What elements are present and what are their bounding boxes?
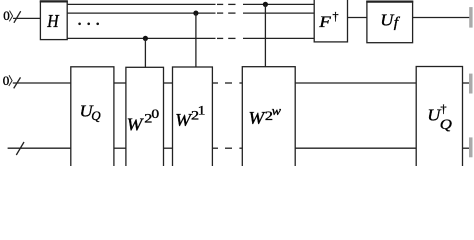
svg-text:0: 0	[3, 73, 10, 88]
gate Uf box	[367, 1, 413, 42]
gate H box	[40, 1, 67, 39]
svg-text:U: U	[380, 11, 395, 29]
gate UQdag box	[416, 67, 462, 172]
wire q1 from H to dashes	[67, 3, 215, 5]
wire W^2^1 to W^2^w dashed break (upper)	[212, 82, 218, 84]
wire q1 from dashes to Fdag	[243, 3, 314, 5]
cropped next-gate bar middle right	[469, 74, 473, 94]
wire qn dashed break	[217, 37, 223, 39]
wire q2 dashed break	[217, 12, 223, 14]
wire UQdag to right edge (lower)	[463, 147, 471, 149]
gate Uf label	[380, 11, 400, 31]
svg-text:W: W	[248, 109, 265, 129]
wire UQ to W^2^0 (lower)	[114, 147, 126, 149]
gate W^2^0 box	[126, 67, 164, 172]
wire q2 from H to dashes	[67, 12, 215, 14]
svg-text:†: †	[333, 9, 339, 23]
wire Fdag to Uf	[348, 17, 367, 19]
wire Uf to right edge	[413, 17, 471, 19]
ket |0> bottom register label	[3, 73, 10, 88]
svg-text:W: W	[175, 110, 192, 130]
wire q1 dashed break	[217, 3, 223, 5]
cropped next-gate bar top right	[469, 7, 472, 28]
ket rangle bottom register	[9, 75, 12, 86]
wire q2 from dashes to Fdag	[243, 12, 314, 14]
ket |0> top register label	[3, 8, 10, 23]
wire W^2^w to UQdag (upper)	[295, 82, 416, 84]
gate Fdag label	[318, 9, 338, 30]
svg-text:H: H	[46, 11, 59, 31]
svg-text:1: 1	[198, 104, 206, 118]
svg-text:†: †	[441, 102, 447, 116]
gate H label	[46, 11, 59, 31]
svg-text:Q: Q	[91, 108, 101, 123]
control wire to W^2^w	[264, 4, 266, 66]
svg-text:0: 0	[3, 8, 10, 23]
wire W^2^1 to W^2^w dashed break (lower)	[212, 147, 218, 149]
svg-text:0: 0	[151, 107, 159, 121]
wire qn from dashes to Fdag	[243, 37, 314, 39]
control wire to W^2^0	[144, 38, 146, 67]
svg-text:F: F	[318, 12, 331, 30]
wire ancilla register start	[8, 147, 71, 149]
wire W^2^0 to W^2^1 (upper)	[164, 82, 173, 84]
gate Fdag box	[314, 0, 347, 42]
gate W^2^w box	[242, 67, 295, 172]
svg-text:w: w	[272, 104, 281, 118]
bundle slash bottom register	[14, 77, 21, 88]
gate W^2^1 label	[175, 104, 205, 130]
svg-text:W: W	[127, 115, 144, 135]
gate UQ box	[71, 67, 114, 172]
wire UQdag to right edge (upper)	[463, 82, 471, 84]
gate W^2^w label	[248, 104, 281, 128]
gate UQdag label	[427, 102, 452, 133]
cropped next-gate bar bottom right	[469, 137, 473, 157]
bundle slash top register	[14, 11, 21, 23]
control dot on qn for W^2^0	[143, 36, 148, 41]
wire UQ to W^2^0 (upper)	[114, 82, 126, 84]
wire bottom input to UQ	[13, 82, 71, 84]
ellipsis dots between q2 and qn	[78, 23, 99, 26]
control wire to W^2^1	[195, 13, 197, 67]
bundle slash ancilla register	[16, 142, 24, 155]
ket rangle top register	[9, 11, 12, 22]
wire qn from H to dashes	[67, 37, 215, 39]
wire W^2^0 to W^2^1 (lower)	[164, 147, 173, 149]
gate W^2^1 box	[173, 67, 213, 172]
svg-text:Q: Q	[440, 117, 453, 133]
wire top input to H	[13, 17, 40, 19]
gate W^2^0 label	[127, 107, 160, 134]
wire W^2^w to UQdag (lower)	[295, 147, 416, 149]
gate UQ label	[80, 102, 102, 123]
control dot on q2 for W^2^1	[193, 11, 198, 16]
control dot on q1 for W^2^w	[263, 2, 268, 7]
